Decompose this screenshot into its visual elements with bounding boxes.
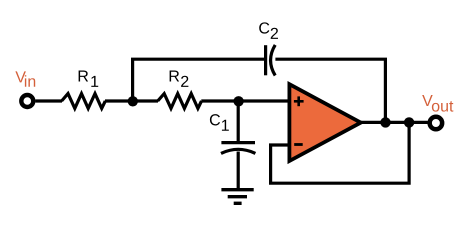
Vin terminal [21, 95, 33, 107]
Vout terminal [430, 117, 443, 130]
wire C2 right to corner down to output node [275, 59, 385, 122]
output node junction dot [380, 117, 390, 127]
label C1 [210, 114, 229, 131]
label C2 [259, 22, 278, 39]
resistor R1 [62, 94, 106, 109]
ground bar 1 [221, 188, 253, 191]
feedback tap junction dot [404, 117, 414, 127]
label Vin [15, 71, 35, 86]
label Vout [422, 95, 453, 112]
wire feedback loop: output node down, left, up to - input [271, 122, 410, 183]
label R2 [170, 70, 189, 86]
capacitor C2 left plate [264, 45, 267, 75]
capacitor C1 top plate [221, 141, 255, 144]
node B junction dot [233, 96, 243, 106]
ground bar 3 [234, 202, 242, 205]
capacitor C2 right curved plate [271, 45, 276, 76]
wire R1 to node A to R2 [105, 99, 158, 102]
label R1 [79, 70, 99, 86]
wire node B down to C1 [237, 101, 240, 144]
wire op-amp output to Vout terminal [360, 121, 428, 124]
op-amp - input marking [294, 143, 303, 146]
node A junction dot [128, 96, 138, 106]
wire Vin terminal to R1 [36, 99, 63, 102]
op-amp + input marking [294, 96, 304, 106]
wire R2 to node B to op-amp + input [201, 99, 290, 102]
ground bar 2 [228, 195, 247, 198]
resistor R2 [158, 94, 202, 109]
capacitor C1 bottom curved plate [221, 149, 255, 153]
wire C1 to ground [237, 152, 240, 190]
op-amp U1 triangle [289, 84, 360, 161]
wire node A up to top rail and right to C2 [133, 59, 265, 101]
